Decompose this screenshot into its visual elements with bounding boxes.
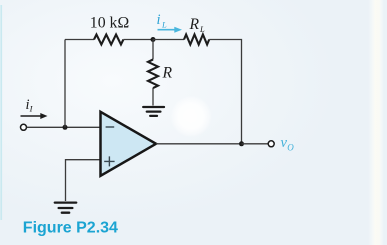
wire: top segment between node A and RL: [153, 39, 184, 41]
wire: top segment between 10k and node A: [123, 39, 153, 41]
wire: op-amp output to output node: [156, 143, 242, 145]
wire: top-right corner segment from RL down to output node: [209, 40, 241, 144]
label RL: [189, 16, 206, 34]
output terminal (open circle): [268, 141, 274, 147]
resistor RL: [184, 35, 209, 45]
node A junction dot (top node): [151, 37, 156, 42]
svg-text:Figure P2.34: Figure P2.34: [23, 219, 118, 236]
resistor R1 10 kOhm: [94, 35, 123, 45]
ground (non-inverting input): [55, 203, 76, 213]
svg-text:i: i: [157, 12, 161, 28]
label R: [162, 65, 173, 82]
arrow for iL: [158, 27, 183, 33]
input terminal (open circle): [21, 124, 27, 130]
caption Figure P2.34: [23, 219, 118, 236]
wire: output node to output terminal: [242, 143, 269, 145]
wire: input to inverting input: [27, 126, 100, 128]
op-amp U1: [101, 112, 157, 176]
left page-edge rule: [0, 5, 2, 220]
svg-text:R: R: [162, 65, 173, 82]
svg-text:L: L: [161, 19, 167, 29]
wire: top feedback segment left of 10k resistor: [65, 39, 94, 41]
label iI input current: [26, 97, 34, 114]
wire: feedback vertical from node B up to top wire: [64, 40, 66, 128]
label iL current: [157, 12, 168, 29]
node B junction dot (inverting input node): [63, 125, 68, 130]
svg-text:L: L: [199, 24, 205, 34]
wire: non-inverting input to ground branch: [66, 160, 101, 201]
label 10 kOhm value: [90, 15, 129, 32]
svg-text:O: O: [287, 142, 294, 152]
resistor R (vertical): [148, 60, 158, 89]
wire: from resistor R down to ground: [152, 88, 154, 106]
svg-text:10 kΩ: 10 kΩ: [90, 15, 129, 32]
wire: R branch from node A down to resistor R: [152, 40, 154, 60]
arrow for iI: [21, 113, 48, 119]
ground (below resistor R): [143, 107, 164, 116]
label vO output voltage: [281, 135, 295, 152]
node C junction dot (output node): [239, 141, 244, 146]
svg-text:R: R: [189, 16, 200, 33]
